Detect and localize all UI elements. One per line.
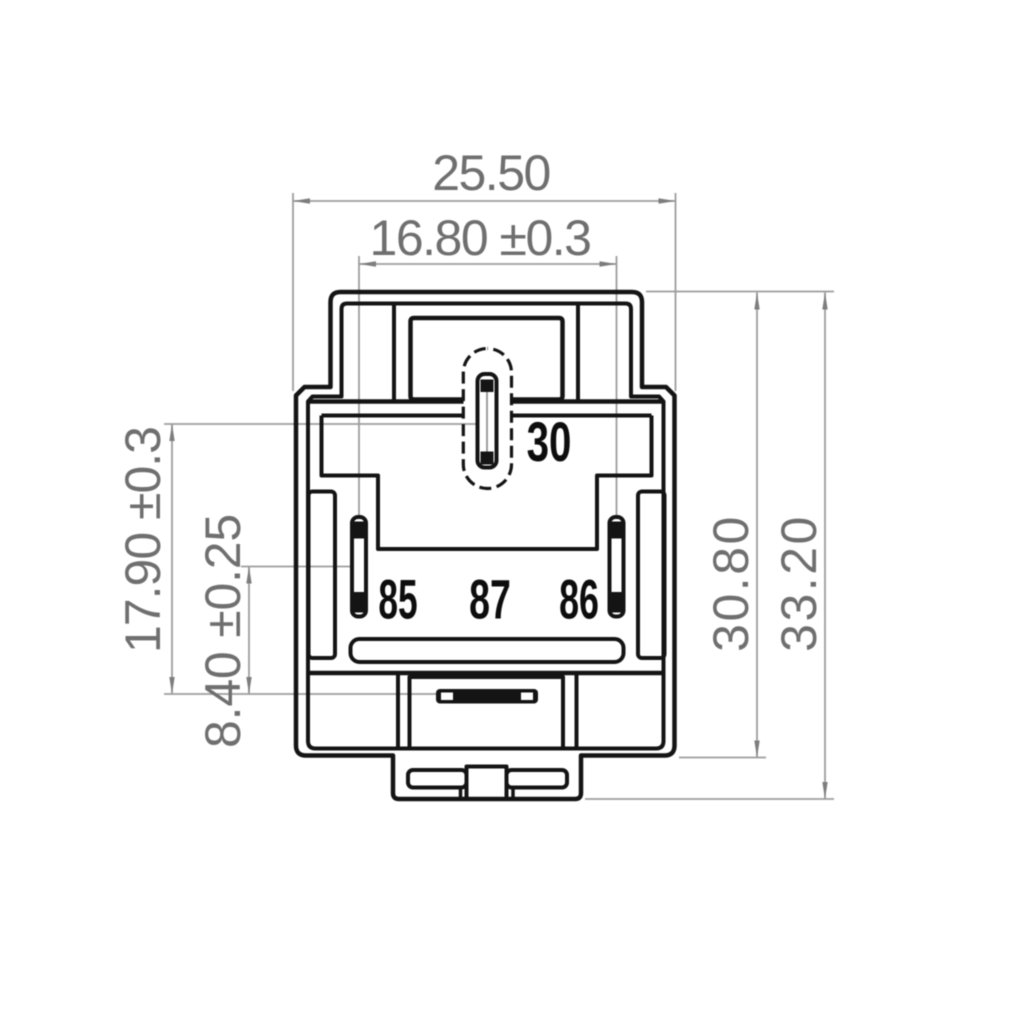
svg-text:33.20: 33.20 xyxy=(771,514,827,652)
svg-text:86: 86 xyxy=(559,567,599,630)
svg-text:87: 87 xyxy=(469,569,511,631)
svg-text:8.40 ±0.25: 8.40 ±0.25 xyxy=(195,514,251,748)
svg-text:85: 85 xyxy=(378,568,417,630)
svg-text:30: 30 xyxy=(527,412,572,474)
svg-text:16.80 ±0.3: 16.80 ±0.3 xyxy=(370,210,591,266)
svg-text:17.90 ±0.3: 17.90 ±0.3 xyxy=(115,427,171,653)
svg-text:30.80: 30.80 xyxy=(703,514,759,652)
svg-text:25.50: 25.50 xyxy=(432,145,550,201)
